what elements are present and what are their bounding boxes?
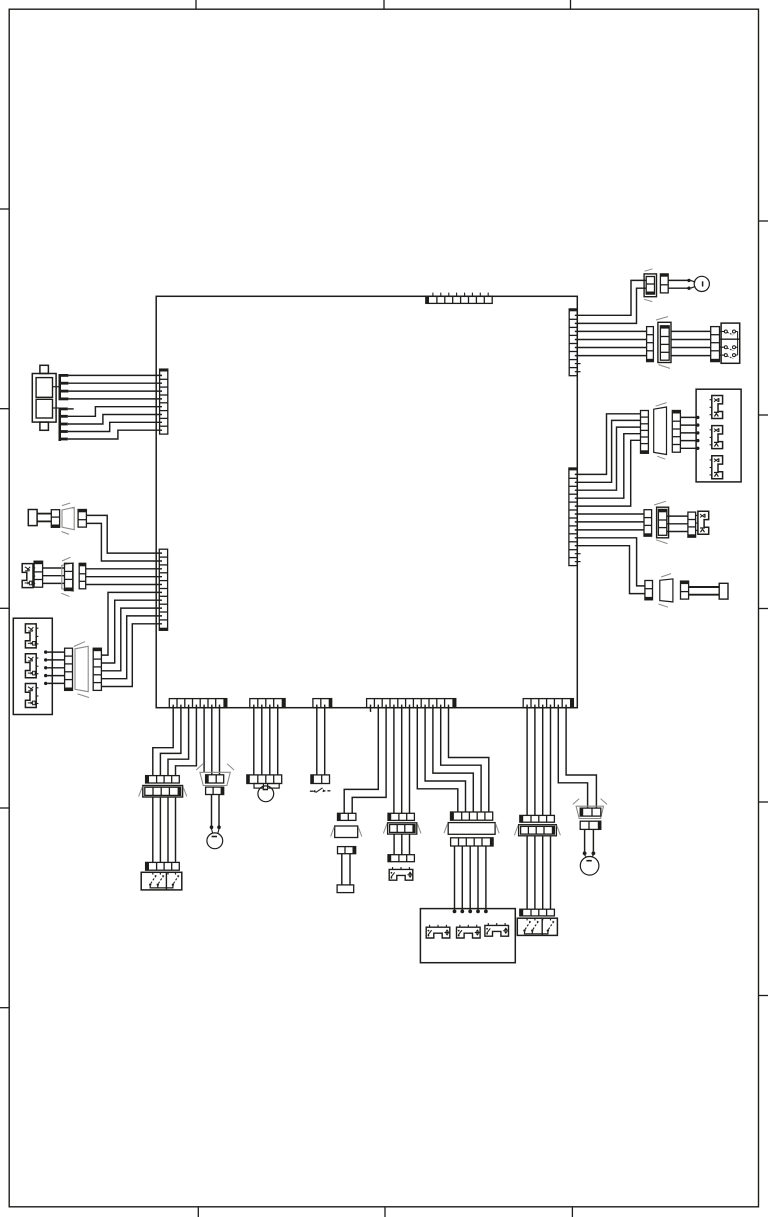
connector plug P1 housing	[32, 365, 56, 430]
plug P2	[719, 583, 728, 599]
connector strip B4 on bottom edge of control unit	[367, 699, 456, 708]
stub pins on strip R2 lower cells	[575, 554, 581, 562]
junction dots of switch cluster	[44, 650, 47, 685]
wires X5 to switch box SB1	[671, 331, 711, 355]
cable X8 to plug P2	[689, 587, 720, 595]
connector X16 pin strip	[451, 812, 493, 820]
lamp LP3	[258, 786, 274, 802]
connector X17 pin strip	[388, 855, 414, 862]
wires X4 to lamp LP1	[668, 280, 687, 288]
connector X1 mating pin strip	[78, 510, 86, 528]
wires X9 to connector X11	[153, 797, 176, 862]
wire B4 pin6 to connector X15	[409, 705, 411, 814]
frame tick marks bottom edge	[198, 1207, 572, 1217]
wire R2 pin1 to connector X6	[575, 414, 641, 475]
connector SB1 pin strip	[711, 327, 720, 362]
connector X10 flared housing	[196, 764, 234, 786]
connector X1 housing trapezoid	[62, 503, 75, 534]
connector X2 pin strip A	[34, 561, 43, 587]
wire P1 pin7 to L1 pin7	[68, 422, 162, 431]
wire P1 pin1 to L1 pin1	[68, 374, 162, 376]
stub pins on strip R1 lower cells	[575, 364, 581, 372]
wires X16 to relay box dots	[455, 846, 486, 910]
connector X8 mating pin strip	[681, 581, 689, 599]
wire R2 pin9 to connector X8	[575, 538, 645, 586]
connector X8 pin strip	[645, 581, 653, 600]
wires R1 pins3-6 to connector X5	[575, 331, 647, 355]
wire B1 pin4 to connector X9	[176, 705, 197, 776]
wire X1 pin2 to L2 pin2	[86, 523, 162, 561]
wire R2 pin5 to connector X6	[575, 440, 641, 506]
plug P1 link stubs	[53, 387, 59, 408]
connector X15 pin strip	[388, 813, 414, 820]
wires X10 to lamp LP2	[212, 795, 220, 826]
wire X3 pin4 to L2 pin9	[101, 616, 162, 679]
connector strip B1 on bottom edge of control unit	[169, 699, 227, 708]
relay RL3 glyph	[485, 923, 509, 936]
wires X14 to device M1	[342, 854, 350, 885]
connector X14 pin strip	[338, 813, 356, 820]
wire B4 pin7 to connector X16	[417, 705, 458, 812]
lamp LP4	[580, 857, 599, 876]
relay box RB1	[420, 909, 515, 963]
connector SB2 pin strip	[688, 512, 696, 537]
device M2 glyph	[389, 867, 413, 880]
lamp LP1	[694, 276, 709, 291]
wire P1 pin2 to L1 pin2	[68, 382, 162, 384]
switch SW3 glyph	[25, 654, 38, 678]
stub wire B4 pin1	[370, 705, 372, 712]
connector X5 housing trapezoid	[656, 317, 671, 369]
wire X2 pin3 to L2 pin5	[86, 584, 162, 586]
connector strip L2 on left edge of control unit	[159, 549, 167, 630]
wires X7 to connector SB2	[667, 516, 688, 531]
connector X4 housing	[644, 269, 656, 302]
wire B1 pin2 to connector X9	[160, 705, 181, 776]
stub wire P1 lower pin1	[68, 408, 74, 410]
connector X2 mating pin strip	[79, 563, 86, 589]
connector strip B2 on bottom edge of control unit	[250, 699, 285, 708]
switch SW2 glyph	[25, 624, 38, 648]
frame tick marks top edge	[196, 0, 571, 9]
wire B5 pin2 to connector X18	[534, 705, 536, 816]
connector X6 pin strip A	[641, 411, 649, 454]
wire X3 pin1 to L2 pin6	[101, 592, 162, 655]
connector X2 housing trapezoid	[61, 557, 73, 596]
wire B1 pin5 to connector X10	[203, 705, 205, 773]
wire P1 pin8 to L1 pin8	[68, 430, 162, 439]
pin header H1 upper	[59, 374, 69, 400]
sensor S1 body	[28, 510, 37, 526]
connector X6 housing trapezoid	[654, 403, 667, 460]
device M1 body	[337, 885, 354, 893]
wire B5 pin4 to connector X18	[550, 705, 552, 816]
wires X6 to cluster junction dots	[680, 417, 696, 448]
wire B1 pin1 to connector X9	[153, 705, 173, 776]
wire B4 pin9 to connector X16	[433, 705, 473, 812]
connector X5 pin strip A	[647, 327, 654, 362]
wires cluster dots to connector X3	[47, 652, 64, 683]
connector X3 housing trapezoid	[74, 642, 89, 698]
junction dots at lamp LP1	[687, 279, 695, 290]
wire R2 pin2 to connector X6	[575, 420, 641, 482]
control unit main box	[156, 296, 577, 707]
connector X9 pin strip	[146, 776, 180, 783]
connector X9 housing box	[139, 786, 187, 798]
connector X10 mating pin strip	[206, 787, 224, 794]
switch box SB1	[720, 323, 740, 363]
wire R2 pin10 to connector X8	[575, 546, 645, 594]
wire X2 pin2 to L2 pin4	[86, 576, 162, 578]
wires SW1 strip to X2 housing	[43, 568, 65, 583]
connector X20 pin strip	[520, 909, 555, 916]
connector X7 housing trapezoid	[654, 501, 669, 543]
lamp LP3 holder tabs	[254, 784, 279, 789]
wires X18 to connector X20	[527, 836, 550, 909]
wire B4 pin8 to connector X16	[425, 705, 465, 812]
wire B5 pin1 to connector X18	[526, 705, 528, 816]
connector strip L1 on left edge of control unit	[160, 369, 168, 434]
relay RL2 glyph	[457, 925, 481, 938]
sensor S1 leads	[37, 514, 51, 522]
connector X18 housing box	[514, 825, 560, 836]
junction dots at lamp LP2	[210, 825, 221, 833]
wire X3 pin3 to L2 pin8	[101, 608, 162, 671]
junction dots at lamp LP4	[583, 851, 596, 857]
connector X15 housing box	[383, 823, 421, 834]
switch SW5 glyph	[710, 396, 723, 419]
wire X2 pin1 to L2 pin3	[86, 568, 162, 570]
connector X16 lower pin strip	[451, 838, 494, 846]
wire B1 pin3 to connector X9	[168, 705, 189, 776]
wire P1 pin3 to L1 pin3	[68, 390, 162, 392]
connector X16 housing box	[444, 823, 499, 835]
wires B3 pins to switch connector X13	[317, 705, 325, 775]
junction dots in relay box	[453, 910, 488, 914]
switch box SB4	[517, 918, 557, 935]
wires R2 pins6-8 to connector X7	[575, 514, 644, 530]
wires X15 to connector X17	[394, 834, 409, 855]
wire B4 pin4 to connector X15	[393, 705, 395, 814]
wire B1 pin6 to connector X10	[211, 705, 213, 775]
connector X14 housing box	[331, 826, 362, 838]
switch SW4 glyph	[25, 684, 38, 708]
connector strip T on top edge of control unit	[426, 293, 492, 304]
switch cluster box SW2-SW4	[13, 618, 52, 714]
wire B5 pin5 to lamp connector X19	[558, 705, 587, 809]
wire B4 pin11 to connector X16	[449, 705, 489, 812]
connector X13 pin strip	[311, 775, 330, 784]
lamp LP2	[207, 833, 223, 849]
wire B4 pin3 to connector X14	[352, 705, 386, 814]
frame tick marks right edge	[759, 221, 768, 996]
wire B5 pin6 to lamp connector X19	[566, 705, 596, 809]
pin header H1 lower	[59, 408, 68, 442]
wires X19 to lamp LP4	[585, 829, 594, 851]
wire X3 pin2 to L2 pin7	[101, 600, 162, 663]
switch SW9 glyph	[310, 788, 331, 793]
connector X18 pin strip	[520, 815, 555, 822]
wire R1 pin1 to lamp connector X4	[575, 280, 646, 315]
connector X7 pin strip A	[644, 510, 652, 537]
connector X3 mating pin strip	[93, 648, 101, 690]
wire R2 pin3 to connector X6	[575, 427, 641, 490]
connector X4 mating pin strip	[660, 274, 668, 293]
switch cluster box SW5-SW7	[696, 389, 741, 482]
wire P1 pin5 to L1 pin5	[68, 407, 162, 417]
wire X1 pin1 to L2 pin1	[86, 515, 162, 553]
wire X3 pin5 to L2 pin10	[101, 624, 162, 687]
connector X19 mating pin strip	[580, 821, 601, 829]
connector strip B5 on bottom edge of control unit	[523, 699, 573, 708]
switch box SB3	[141, 872, 182, 890]
connector X3 pin strip A	[65, 648, 73, 690]
frame tick marks left edge	[0, 209, 9, 1008]
connector X8 housing trapezoid	[659, 574, 673, 608]
switch SW1 glyph	[22, 564, 35, 588]
connector X12 pin strip	[247, 775, 282, 784]
connector X19 flared housing	[573, 799, 607, 819]
switch SW6 glyph	[710, 426, 723, 449]
wire P1 pin4 to L1 pin4	[68, 398, 162, 400]
connector strip R1 on right edge of control unit	[569, 309, 577, 376]
relay RL1 glyph	[426, 925, 450, 938]
wire B5 pin3 to connector X18	[542, 705, 544, 816]
wire P1 pin6 to L1 pin6	[68, 415, 162, 425]
connector X14 lower pin strip	[338, 847, 356, 854]
connector X1 pin strip	[51, 510, 59, 528]
wire B4 pin2 to connector X14	[344, 705, 378, 814]
wire B4 pin10 to connector X16	[441, 705, 481, 812]
wire B1 pin7 to connector X10	[219, 705, 221, 775]
wire R2 pin4 to connector X6	[575, 434, 641, 499]
junction dots of right cluster	[696, 416, 699, 450]
wire R1 pin2 to lamp connector X4	[575, 288, 646, 323]
switch SW7 glyph	[710, 456, 723, 479]
switch SW8 glyph	[696, 511, 709, 534]
wires B2 pins to lamp connector X12	[254, 705, 278, 775]
connector strip B3 on bottom edge of control unit	[313, 699, 332, 708]
wire B4 pin5 to connector X15	[401, 705, 403, 814]
connector strip R2 on right edge of control unit	[569, 468, 577, 566]
connector X11 pin strip	[146, 862, 180, 870]
connector X6 mating pin strip	[672, 411, 680, 453]
